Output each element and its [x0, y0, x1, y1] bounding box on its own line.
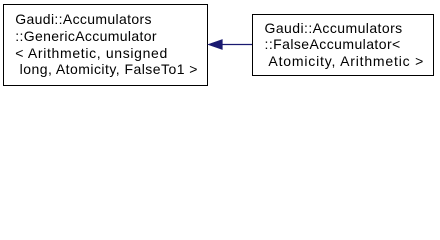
wire [221, 44, 252, 46]
arrowhead [208, 40, 222, 50]
node Gaudi::Accumulators::GenericAccumulator [3, 4, 208, 86]
inheritance arrow (derived FalseAccumulator -> base GenericAccumulator) [0, 0, 440, 91]
node Gaudi::Accumulators::FalseAccumulator [252, 14, 434, 76]
